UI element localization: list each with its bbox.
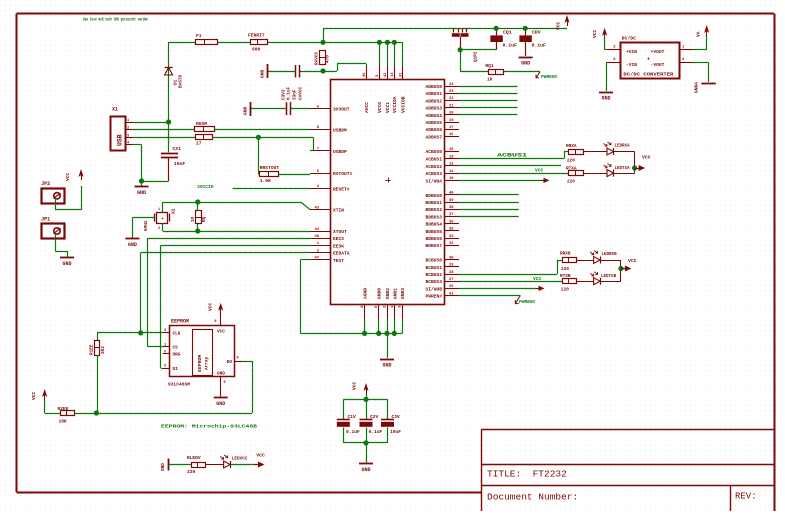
pin ADBUS4 (20) of U1: [425, 112, 459, 119]
svg-text:46: 46: [363, 72, 367, 77]
svg-text:RRXA: RRXA: [566, 144, 577, 149]
svg-text:RESET#: RESET#: [333, 186, 350, 192]
svg-text:RQ1: RQ1: [485, 63, 494, 69]
pin XTIN (43) of U1: [310, 206, 344, 213]
svg-text:EEDATA: EEDATA: [333, 251, 350, 257]
capacitor CAVCC 0.1uF: [268, 65, 300, 78]
wire -VIN to GND: [606, 63, 607, 92]
wire RQ1 to PWREN# flag: [504, 71, 540, 73]
power VCC arrow at end of top rail (rotated label): [556, 15, 570, 30]
svg-text:0.1uF: 0.1uF: [503, 43, 518, 49]
wire LED join B cluster: [620, 260, 622, 281]
svg-text:2: 2: [158, 227, 160, 231]
power VCC arrow A cluster: [635, 155, 651, 172]
svg-text:220: 220: [187, 469, 196, 475]
diode LEDRXB: [576, 251, 621, 264]
node junctions on GND rail: [362, 331, 397, 336]
svg-text:48: 48: [314, 235, 319, 239]
svg-text:JP1: JP1: [41, 217, 50, 223]
svg-text:CX1: CX1: [172, 146, 181, 152]
wire RAVCC top to top rail corner: [323, 28, 325, 42]
wire VCC rail to U1 top pins: [323, 42, 403, 66]
svg-text:C1V: C1V: [348, 414, 357, 420]
node junction top of RAVCC: [320, 40, 325, 45]
svg-text:CAVCC: CAVCC: [299, 86, 304, 100]
svg-text:42: 42: [384, 72, 388, 77]
svg-text:+: +: [647, 57, 650, 63]
pin ADBUS5 (19) of U1: [425, 119, 459, 126]
svg-text:10: 10: [449, 177, 454, 181]
svg-text:ADBUS0: ADBUS0: [425, 84, 442, 90]
svg-text:X2: X2: [171, 208, 177, 214]
pin VCC0 (3) of U1: [376, 66, 383, 113]
svg-text:20: 20: [449, 112, 454, 116]
ferrite bead FERRIT 600: [248, 33, 268, 53]
svg-text:F1: F1: [196, 33, 202, 39]
svg-text:3V3OUT: 3V3OUT: [333, 107, 350, 113]
wire TEST to GND rail: [300, 260, 310, 334]
pin DI (9) of U3: [163, 365, 179, 372]
wire ADBUS0 net: [459, 86, 518, 88]
node junction R1EE/R2EE: [94, 410, 99, 415]
pin VCCIOA (14) of U1: [391, 66, 398, 113]
resistor RAVCC 470 (vertical): [315, 51, 331, 66]
svg-text:+VIN: +VIN: [626, 49, 637, 55]
svg-text:USB: USB: [117, 134, 124, 146]
svg-text:220: 220: [561, 267, 569, 272]
svg-text:40: 40: [449, 192, 454, 196]
node junction A-side VCC: [632, 165, 637, 170]
svg-text:BDBUS5: BDBUS5: [425, 229, 442, 235]
pin BDBUS7 (32) of U1: [425, 242, 459, 249]
wire RRXA to LEDRXA: [583, 151, 607, 153]
wire ACBUS3 to RTXA: [459, 173, 569, 175]
svg-text:GND: GND: [382, 363, 391, 369]
svg-text:1: 1: [127, 119, 129, 123]
svg-text:ACBUS3: ACBUS3: [425, 171, 442, 177]
svg-text:6: 6: [164, 350, 166, 354]
pin BCBUS2 (28) of U1: [425, 271, 459, 278]
wire VBUS junction down to CX1: [168, 122, 170, 152]
resistor R1EE 2K2 (vertical): [90, 333, 141, 414]
pin BDBUS2 (38) of U1: [425, 206, 459, 213]
wire Q1 to CQ1: [460, 49, 496, 51]
jumper JP1: [41, 217, 64, 239]
svg-text:BCBUS1: BCBUS1: [425, 265, 442, 271]
pin 3V3OUT (6) of U1: [310, 105, 350, 112]
ground GND below U1: [380, 333, 394, 368]
svg-text:LEDRXA: LEDRXA: [615, 145, 631, 149]
title block: [481, 430, 774, 512]
resistor RLEDV 220: [169, 455, 206, 475]
svg-text:28: 28: [449, 271, 454, 275]
svg-text:GND1: GND1: [392, 288, 398, 299]
pin GND (5) of U3: [217, 372, 226, 397]
wire X1 pin1 to VBUS junction: [133, 122, 169, 124]
svg-text:220: 220: [567, 159, 575, 164]
svg-text:ADBUS3: ADBUS3: [425, 106, 442, 112]
svg-text:3VCCIO: 3VCCIO: [197, 184, 214, 190]
wire BDBUS0 net: [459, 194, 519, 196]
pin TEST (47) of U1: [310, 257, 344, 264]
svg-text:Document Number:: Document Number:: [487, 492, 578, 503]
svg-text:ACBUS1: ACBUS1: [425, 157, 442, 163]
svg-text:CLK: CLK: [173, 331, 181, 336]
svg-text:RUSM: RUSM: [196, 121, 207, 127]
svg-text:29: 29: [449, 264, 454, 268]
pin ADBUS6 (17) of U1: [425, 126, 459, 133]
resistor RRXB 220: [560, 252, 577, 273]
pin BDBUS0 (40) of U1: [425, 192, 459, 199]
svg-text:VCC: VCC: [535, 168, 544, 174]
pin AGND (45) of U1: [361, 288, 369, 319]
pin ADBUS7 (16) of U1: [425, 133, 459, 140]
diode LEDTXA: [583, 164, 634, 177]
svg-text:5: 5: [224, 381, 226, 385]
pin PWREN# (41) of U1: [425, 292, 459, 299]
pin -VOUT (4) of U2: [680, 58, 694, 62]
net label VCC (green) on BCBUS3 row: [533, 276, 542, 282]
ground GNDA (rotated label): [694, 82, 716, 93]
wire crystal bottom to XTOUT: [163, 223, 311, 232]
resistor RUSM 27: [195, 121, 215, 132]
svg-text:1.5K: 1.5K: [260, 178, 271, 184]
svg-text:DO: DO: [227, 360, 233, 365]
note text (green): Bew Fuse muss nach SMD getauscht werden: [83, 18, 148, 23]
svg-text:TEST: TEST: [333, 258, 344, 264]
svg-text:+VOUT: +VOUT: [651, 49, 665, 55]
svg-text:EEPROM: EEPROM: [171, 319, 189, 325]
svg-text:220: 220: [561, 288, 569, 293]
svg-text:C3V: C3V: [392, 414, 401, 420]
svg-text:33nF: 33nF: [293, 89, 298, 100]
wire BDBUS2 net: [459, 209, 519, 211]
svg-text:-VOUT: -VOUT: [651, 62, 665, 68]
pin ADBUS0 (24) of U1: [425, 83, 459, 90]
ground GND below CDV: [519, 58, 533, 67]
svg-text:BDBUS6: BDBUS6: [425, 236, 442, 242]
svg-text:33: 33: [449, 235, 454, 239]
svg-text:BDBUS3: BDBUS3: [425, 214, 442, 220]
svg-text:R1EE: R1EE: [90, 344, 95, 355]
eeprom U3 93LC46 body: [168, 319, 235, 388]
svg-text:LEDTXA: LEDTXA: [615, 167, 631, 171]
node junction bottom of RAVCC: [320, 68, 325, 73]
wire AVCC feed: [300, 64, 367, 72]
diode LEDRXA: [604, 142, 631, 155]
wire X1 pin3 to RUSP: [133, 137, 195, 139]
wire PWREN# net (bottom): [459, 295, 520, 297]
power VCC arrow above EEPROM (rotated label): [208, 302, 224, 313]
svg-text:600: 600: [252, 47, 261, 53]
power VCC arrow feeding +VIN (rotated label): [592, 28, 607, 50]
wire VBUS fuse rail: [169, 42, 323, 44]
crystal X2 6MHz: [144, 208, 177, 231]
svg-text:EECS: EECS: [333, 236, 344, 242]
pin BCBUS0 (30) of U1: [425, 256, 459, 263]
svg-text:ADBUS4: ADBUS4: [425, 113, 442, 119]
svg-text:16: 16: [449, 133, 454, 137]
ground GND below -VIN: [599, 93, 613, 102]
pin BDBUS3 (37) of U1: [425, 213, 459, 220]
svg-text:10K: 10K: [59, 419, 68, 425]
svg-text:BDBUS1: BDBUS1: [425, 200, 442, 206]
wire BDBUS1 net: [459, 202, 519, 204]
svg-text:PWREN#: PWREN#: [519, 299, 536, 305]
jumper JP2: [41, 181, 64, 204]
capacitor C3V 10uF: [381, 414, 401, 435]
capacitor C1V 0.1uF: [337, 414, 360, 435]
svg-text:ACBUS0: ACBUS0: [425, 149, 442, 155]
node junction X1 shield GND: [139, 178, 144, 183]
svg-text:DI: DI: [173, 367, 179, 372]
svg-text:XTOUT: XTOUT: [333, 229, 347, 235]
connector X1 USB: [111, 107, 126, 151]
svg-text:ADBUS6: ADBUS6: [425, 127, 442, 133]
svg-text:ADBUS1: ADBUS1: [425, 91, 442, 97]
svg-text:-VIN: -VIN: [626, 62, 637, 68]
svg-text:93LC46SM: 93LC46SM: [168, 382, 190, 388]
dc/dc converter U2 box: [621, 36, 680, 79]
svg-text:VCC: VCC: [628, 258, 637, 264]
svg-text:15: 15: [449, 148, 454, 152]
node junction CQ1 top: [494, 26, 499, 31]
wire SI/WUB to arrow: [459, 286, 545, 291]
svg-text:PWREN#: PWREN#: [425, 294, 442, 300]
svg-text:GND0: GND0: [377, 288, 383, 299]
svg-text:GND: GND: [128, 242, 137, 248]
svg-text:VCC: VCC: [592, 29, 598, 38]
svg-text:VCC: VCC: [556, 21, 562, 30]
node PWREN# net label (bottom): [515, 296, 535, 305]
svg-text:EESK: EESK: [333, 243, 344, 249]
wire X1 pin2 to RUSM: [133, 129, 194, 131]
ground GND below USB: [135, 181, 149, 196]
op-amp U1 FT2232 main IC body: [331, 80, 445, 305]
svg-text:RTXA: RTXA: [566, 167, 577, 172]
svg-text:41: 41: [449, 292, 454, 296]
wire ADBUS2 net: [459, 100, 518, 102]
wire ACBUS1 to RRXA: [459, 152, 569, 159]
capacitor C3V3 33nF: [251, 102, 311, 115]
svg-text:39: 39: [449, 199, 454, 203]
svg-text:ACBUS2: ACBUS2: [425, 164, 442, 170]
svg-text:BDBUS2: BDBUS2: [425, 207, 442, 213]
wire +VOUT to VA: [694, 36, 707, 50]
svg-text:0.1uF: 0.1uF: [346, 429, 360, 435]
wire SI/WUA to VCC arrow: [459, 178, 550, 183]
node junctions on VCC pin rail: [377, 40, 397, 45]
svg-text:26: 26: [449, 285, 454, 289]
svg-text:0.1uF: 0.1uF: [369, 429, 383, 435]
svg-text:VCC: VCC: [208, 302, 214, 311]
wire top VCC distribution rail: [323, 28, 567, 30]
diode LEDTXB: [576, 272, 621, 285]
svg-text:GND: GND: [521, 61, 530, 67]
svg-text:43: 43: [314, 206, 319, 210]
svg-text:REV:: REV:: [735, 492, 757, 502]
pin EECS (48) of U1: [310, 235, 344, 242]
node junction RQ bottom: [195, 228, 200, 233]
pin VCCIOB (31) of U1: [399, 66, 406, 113]
resistor RRSTOUT 1.5K: [260, 165, 280, 184]
svg-text:25: 25: [384, 303, 388, 308]
svg-text:ADBUS7: ADBUS7: [425, 134, 442, 140]
svg-text:GND: GND: [361, 467, 370, 473]
node PWREN# net label (top): [536, 72, 558, 80]
wire -VOUT to GNDA: [694, 63, 709, 83]
wire RUSP to USBDP pin: [213, 137, 314, 151]
svg-text:CQ1: CQ1: [503, 30, 512, 36]
svg-text:GND3: GND3: [400, 288, 406, 299]
svg-text:+: +: [161, 217, 164, 222]
resistor RQ 1M (vertical): [191, 202, 207, 231]
svg-text:8: 8: [214, 320, 216, 324]
svg-text:Array: Array: [205, 356, 210, 370]
svg-text:GND: GND: [217, 372, 225, 377]
node junction B-side VCC: [618, 266, 623, 271]
wire BCBUS2 to RRXB: [459, 260, 563, 275]
pin GND2 (25) of U1: [384, 288, 392, 319]
svg-text:RSTOUT#: RSTOUT#: [333, 171, 353, 177]
svg-text:ADBUS2: ADBUS2: [425, 98, 442, 104]
ground GND at CAVCC (rotated): [260, 64, 268, 78]
fuse F1: [196, 33, 218, 45]
wire ADBUS4 net: [459, 114, 518, 116]
pin EESK (1) of U1: [310, 242, 344, 249]
pin BDBUS6 (33) of U1: [425, 235, 459, 242]
svg-text:PWREN#: PWREN#: [541, 74, 558, 80]
wire RUSM to USBDM pin: [214, 129, 310, 131]
svg-text:BDBUS0: BDBUS0: [425, 193, 442, 199]
svg-text:VCC: VCC: [352, 381, 358, 390]
net label 3VCCIO (green): [197, 184, 214, 190]
wire junction down to RRSTOUT: [258, 137, 259, 174]
svg-text:EEPROM: Microchip-93LC46B: EEPROM: Microchip-93LC46B: [161, 424, 257, 430]
pin SI/WUB (26) of U1: [425, 285, 459, 292]
svg-text:44: 44: [314, 228, 319, 232]
pin BDBUS4 (36) of U1: [425, 220, 459, 227]
wire GND rail under U1: [300, 319, 402, 334]
ground GND at C3V3 (rotated): [243, 102, 251, 116]
svg-text:ADBUS5: ADBUS5: [425, 120, 442, 126]
svg-text:VCC: VCC: [31, 391, 37, 400]
svg-text:0.1uF: 0.1uF: [287, 86, 292, 100]
node junction Q1 drain: [458, 47, 463, 52]
svg-text:GND: GND: [216, 401, 225, 407]
capacitor CDV 0.1uF: [519, 28, 546, 56]
pin VCC1 (42) of U1: [384, 66, 391, 113]
svg-text:21: 21: [449, 104, 454, 108]
pin CLK (2) of U3: [163, 329, 181, 336]
svg-text:RQ: RQ: [202, 216, 207, 222]
svg-text:6MHz: 6MHz: [144, 220, 149, 231]
svg-text:RTXB: RTXB: [560, 274, 571, 279]
svg-text:GND: GND: [137, 190, 146, 196]
svg-text:ACBUS1: ACBUS1: [497, 153, 527, 159]
ground GND below cap bank: [359, 443, 373, 473]
pin 3 of X1: [125, 134, 133, 138]
wire RRSTOUT to RSTOUT# pin: [279, 173, 311, 175]
svg-text:GND2: GND2: [385, 288, 391, 299]
wire from fuse down to USB pin1: [168, 42, 170, 122]
svg-text:VCC: VCC: [217, 330, 225, 335]
note text (green): EEPROM Microchip-93LC46B: [161, 424, 257, 430]
wire X1 pin4 to GND: [133, 145, 142, 182]
pin DO (4) of U3: [227, 357, 242, 366]
power VCC arrow at JP2 (rotated label): [65, 169, 84, 181]
svg-text:AGND: AGND: [363, 288, 369, 299]
wire LEDRXA to VCC junction: [614, 152, 635, 174]
svg-text:GND: GND: [243, 106, 249, 115]
svg-text:USBDM: USBDM: [333, 127, 347, 133]
svg-text:RRSTOUT: RRSTOUT: [260, 165, 280, 171]
node junction CDV top: [523, 26, 528, 31]
pin BDBUS5 (35) of U1: [425, 228, 459, 235]
ground GND at crystal: [125, 239, 139, 249]
resistor RRXA 220: [566, 144, 584, 164]
node junction RQ top: [195, 199, 200, 204]
ground GND below JP1: [60, 258, 74, 268]
svg-text:VCC0: VCC0: [377, 102, 383, 113]
svg-text:RLEDV: RLEDV: [187, 455, 201, 461]
svg-text:R2EE: R2EE: [58, 406, 69, 412]
svg-text:2: 2: [164, 329, 166, 333]
svg-text:XTIN: XTIN: [333, 208, 344, 214]
svg-text:30: 30: [449, 256, 454, 260]
svg-text:VCCIOB: VCCIOB: [400, 96, 406, 113]
svg-text:9: 9: [164, 365, 166, 369]
pin GND1 (18) of U1: [391, 288, 399, 319]
svg-text:X1: X1: [112, 107, 118, 113]
svg-text:BCBUS3: BCBUS3: [425, 279, 442, 285]
junction VBUS/USB pin1: [166, 119, 171, 124]
resistor RUSP 27: [196, 135, 213, 147]
wire LEDVCC to VCC arrow: [231, 464, 254, 466]
svg-text:DC/DC: DC/DC: [622, 36, 637, 42]
svg-text:27: 27: [449, 278, 454, 282]
pin ADBUS1 (23) of U1: [425, 90, 459, 97]
svg-text:TITLE: FT2232: TITLE: FT2232: [487, 469, 567, 480]
wire JP1 to GND: [55, 234, 67, 257]
svg-text:1: 1: [158, 208, 160, 212]
pin ADBUS2 (22) of U1: [425, 97, 459, 104]
node junction USBDP/RRSTOUT: [256, 135, 261, 140]
svg-text:470: 470: [326, 55, 331, 63]
pin XTOUT (44) of U1: [310, 228, 347, 235]
svg-text:31: 31: [399, 72, 403, 77]
svg-text:FERRIT: FERRIT: [248, 33, 265, 39]
diode LEDVCC: [205, 455, 248, 468]
wire ACBUS2 net: [459, 165, 561, 167]
svg-text:AVCC: AVCC: [364, 102, 370, 113]
svg-text:DC/DC CONVERTER: DC/DC CONVERTER: [623, 72, 673, 78]
power VCC arrow B cluster: [621, 258, 637, 272]
svg-text:BAS70: BAS70: [179, 74, 184, 88]
pin SI/WUA (10) of U1: [425, 177, 459, 184]
pin ADBUS3 (21) of U1: [425, 104, 459, 111]
svg-text:24: 24: [449, 83, 454, 87]
power VA arrow (rotated label): [696, 25, 710, 37]
svg-text:13: 13: [449, 155, 454, 159]
wire cap bank bottom rail: [343, 428, 387, 443]
svg-text:CDV: CDV: [532, 30, 541, 36]
svg-text:VCC: VCC: [256, 453, 265, 459]
svg-text:35: 35: [449, 228, 454, 232]
svg-text:BDBUS7: BDBUS7: [425, 243, 442, 249]
svg-text:SI/WUA: SI/WUA: [425, 178, 442, 184]
svg-text:BCBUS0: BCBUS0: [425, 258, 442, 264]
